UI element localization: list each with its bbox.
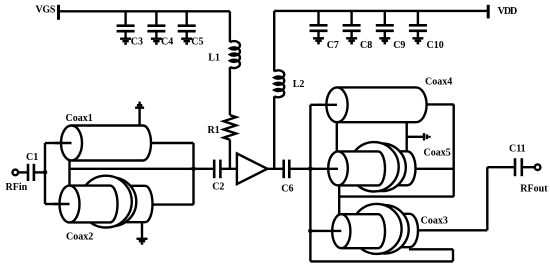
ground bbox=[424, 133, 430, 140]
svg-text:C10: C10 bbox=[427, 40, 444, 51]
amplifier bbox=[237, 154, 267, 185]
port RFin bbox=[6, 170, 28, 194]
coax transformer Coax4 bbox=[326, 77, 452, 123]
svg-text:Coax3: Coax3 bbox=[421, 216, 448, 227]
svg-text:Coax4: Coax4 bbox=[425, 77, 452, 88]
port RFout bbox=[520, 164, 548, 194]
svg-text:C4: C4 bbox=[161, 37, 173, 48]
wire bbox=[310, 104, 322, 106]
wire bbox=[310, 168, 338, 170]
wire bbox=[229, 67, 231, 115]
svg-text:C7: C7 bbox=[327, 40, 339, 51]
capacitor C3 bbox=[117, 11, 143, 47]
wire bbox=[486, 167, 488, 230]
wire bbox=[273, 11, 275, 72]
node VDD bbox=[488, 5, 517, 19]
svg-text:RFout: RFout bbox=[520, 183, 548, 194]
node junction bbox=[308, 229, 313, 234]
svg-text:RFin: RFin bbox=[6, 182, 28, 193]
wire bbox=[44, 143, 46, 204]
capacitor C4 bbox=[147, 11, 173, 47]
resistor R1 bbox=[208, 115, 237, 140]
wire bbox=[55, 142, 72, 144]
wire bbox=[192, 143, 194, 205]
wire bbox=[407, 136, 424, 138]
svg-text:C2: C2 bbox=[212, 181, 224, 192]
ground bbox=[313, 38, 324, 43]
inductor L2 bbox=[274, 70, 304, 97]
wire bbox=[229, 11, 231, 42]
capacitor C11 bbox=[509, 143, 526, 176]
svg-text:L1: L1 bbox=[208, 53, 220, 64]
svg-text:L2: L2 bbox=[293, 79, 305, 90]
wire bbox=[141, 222, 143, 238]
svg-text:C3: C3 bbox=[131, 37, 143, 48]
wire bbox=[273, 96, 275, 169]
coax transformer Coax1 bbox=[61, 113, 151, 161]
capacitor C6 bbox=[281, 160, 293, 195]
ground bbox=[181, 39, 192, 44]
wire bbox=[416, 168, 454, 170]
coax transformer Coax5 bbox=[328, 142, 451, 191]
wire bbox=[336, 122, 338, 151]
svg-text:C1: C1 bbox=[26, 152, 38, 163]
ground bbox=[120, 39, 131, 44]
svg-text:VDD: VDD bbox=[498, 6, 517, 17]
wire bbox=[452, 249, 454, 261]
svg-text:C6: C6 bbox=[281, 184, 293, 195]
wire bbox=[267, 168, 283, 170]
wire bbox=[229, 140, 231, 169]
wire bbox=[45, 203, 58, 205]
capacitor C2 bbox=[194, 160, 237, 193]
svg-text:C8: C8 bbox=[360, 40, 372, 51]
wire bbox=[153, 203, 194, 205]
wire bbox=[59, 10, 230, 12]
node junction bbox=[43, 170, 48, 175]
wire bbox=[45, 142, 60, 144]
ground bbox=[151, 39, 162, 44]
capacitor C1 bbox=[26, 152, 38, 181]
capacitor C7 bbox=[310, 11, 339, 51]
wire bbox=[309, 105, 311, 262]
wire bbox=[522, 166, 535, 168]
node VGS bbox=[36, 4, 59, 19]
wire bbox=[70, 168, 194, 170]
wire bbox=[68, 161, 70, 187]
ground bbox=[412, 38, 423, 43]
wire bbox=[338, 185, 340, 214]
svg-text:Coax2: Coax2 bbox=[66, 232, 93, 243]
wire bbox=[453, 104, 455, 196]
capacitor C5 bbox=[178, 11, 204, 47]
coax transformer Coax2 bbox=[60, 176, 153, 243]
capacitor C8 bbox=[343, 11, 373, 51]
ground bbox=[379, 38, 390, 43]
wire bbox=[427, 103, 454, 105]
wire bbox=[406, 122, 408, 151]
wire bbox=[34, 171, 45, 173]
wire bbox=[289, 168, 310, 170]
svg-text:C9: C9 bbox=[393, 40, 405, 51]
wire bbox=[487, 166, 515, 168]
svg-text:Coax1: Coax1 bbox=[66, 113, 93, 124]
svg-text:R1: R1 bbox=[208, 125, 220, 136]
wire bbox=[274, 10, 488, 12]
wire bbox=[310, 230, 341, 232]
ground bbox=[137, 239, 148, 244]
svg-text:C11: C11 bbox=[509, 143, 526, 154]
svg-text:VGS: VGS bbox=[36, 4, 56, 15]
wire bbox=[418, 229, 487, 231]
wire bbox=[151, 142, 194, 144]
ground bbox=[135, 103, 144, 108]
wire bbox=[18, 171, 28, 173]
svg-text:Coax5: Coax5 bbox=[424, 148, 451, 159]
inductor L1 bbox=[208, 41, 240, 68]
wire bbox=[310, 260, 453, 262]
wire bbox=[318, 104, 337, 106]
wire bbox=[409, 248, 453, 250]
node junction bbox=[308, 167, 313, 172]
wire bbox=[339, 195, 454, 197]
node junction bbox=[191, 167, 196, 172]
capacitor C10 bbox=[409, 11, 444, 51]
wire bbox=[53, 203, 70, 205]
wire bbox=[138, 108, 140, 125]
ground bbox=[346, 38, 357, 43]
capacitor C9 bbox=[376, 11, 406, 51]
svg-text:C5: C5 bbox=[191, 37, 203, 48]
coax transformer Coax3 bbox=[332, 204, 448, 254]
